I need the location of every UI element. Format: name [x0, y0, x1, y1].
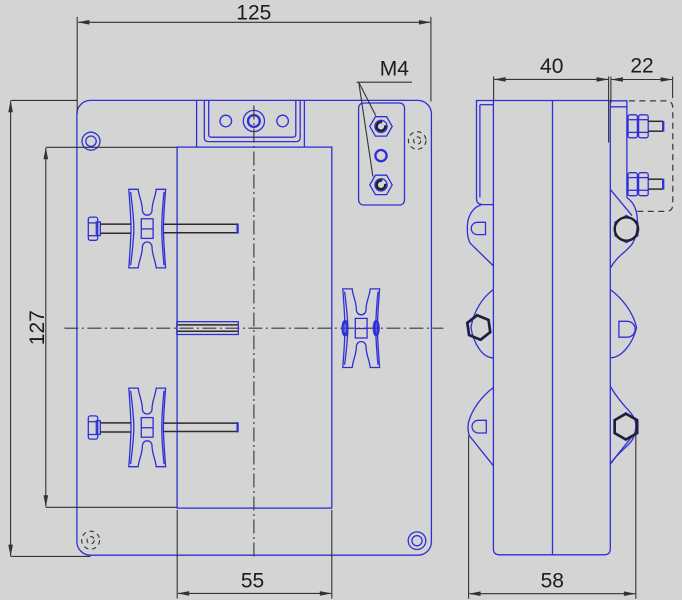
terminal bolt 1 side: nuts — [628, 115, 648, 138]
svg-text:55: 55 — [241, 570, 264, 593]
wing 3 right outline — [610, 387, 636, 464]
bobbin insulator top — [129, 189, 166, 268]
svg-text:40: 40 — [540, 55, 563, 78]
svg-text:127: 127 — [26, 310, 49, 345]
slot wing1 left — [471, 222, 485, 234]
body outline — [493, 101, 610, 555]
bobbin insulator right (middle row) — [343, 289, 380, 368]
svg-text:125: 125 — [236, 2, 271, 25]
left flange — [477, 101, 494, 205]
dimension 55 bottom — [177, 510, 332, 599]
dimension 125 top — [77, 2, 431, 114]
wing 2 left — [471, 290, 494, 358]
svg-text:58: 58 — [541, 569, 564, 592]
terminal bolt 2 side: stud — [648, 179, 663, 189]
plate outline — [77, 100, 432, 555]
terminal block hole right — [277, 115, 289, 127]
center line horizontal — [64, 327, 443, 329]
M4 terminal strip — [359, 103, 405, 205]
middle stud bar — [177, 322, 239, 335]
mounting hole top-right (dashed) — [408, 132, 426, 150]
bobbin insulator bottom — [129, 388, 166, 467]
stud end ellipse right — [374, 321, 379, 335]
hex screw head wing3 right — [615, 414, 637, 440]
svg-text:M4: M4 — [380, 58, 409, 81]
bolt bottom: shaft — [100, 423, 237, 432]
wing 3 right (gusset diagonal) — [610, 435, 633, 464]
hex bolt head wing2 left — [468, 315, 491, 339]
hex nut behind head wing3 right — [614, 413, 638, 441]
mounting hole bottom-right — [408, 532, 426, 550]
terminal bolt 2 side: nuts — [628, 173, 648, 196]
screw head circle wing1 right — [615, 217, 638, 240]
bolt top: shaft — [100, 224, 237, 233]
M4 nut 2 — [370, 175, 392, 194]
window opening — [177, 147, 332, 508]
terminal block housing — [197, 100, 305, 146]
hex nut behind screw head wing1 right — [615, 215, 638, 242]
stud end ellipse left — [343, 321, 348, 335]
wing 1 right outline — [610, 198, 637, 268]
terminal bolt 1 side: stud — [648, 121, 663, 131]
M4 label leader lines — [357, 82, 413, 176]
dimension 22 — [611, 55, 673, 103]
wing 1 left — [467, 205, 493, 266]
slot wing2 right — [619, 321, 635, 337]
M4 nut 1 — [370, 117, 392, 136]
bolt top: stud end — [236, 223, 238, 233]
dimension 127 — [26, 147, 177, 507]
dimension 58 bottom — [469, 429, 636, 599]
M4 strip middle hole — [375, 150, 386, 161]
hex nut behind head wing2 left — [467, 314, 492, 340]
bolt bottom: head — [88, 416, 100, 439]
svg-text:22: 22 — [630, 55, 653, 78]
wing 1 right (gusset diagonal) — [610, 189, 632, 215]
mounting hole bottom-left (dashed) — [82, 531, 100, 549]
wing 2 right — [610, 290, 636, 358]
terminal block hole left — [220, 115, 232, 127]
right flange — [610, 101, 627, 198]
center line vertical — [253, 106, 255, 559]
terminal block center bushing — [243, 110, 264, 131]
bolt bottom: stud end — [236, 422, 238, 432]
dimension overall height left (unlabeled) — [8, 100, 90, 556]
mounting hole top-left — [82, 132, 100, 150]
slot wing3 left — [472, 420, 486, 433]
body parting line — [552, 101, 554, 555]
wing 3 left — [468, 388, 493, 466]
dashed terminal zone box — [629, 101, 673, 211]
bolt top: head — [88, 217, 100, 240]
dimension 40 — [494, 55, 609, 143]
